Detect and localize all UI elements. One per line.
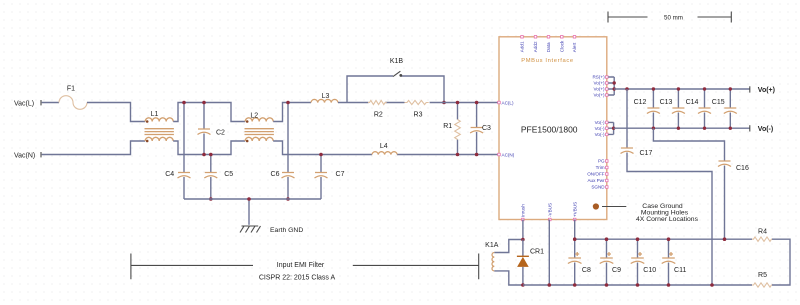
junction dot C6 tap on AC(L) xyxy=(286,101,290,105)
wire Inrush pin drop xyxy=(522,220,524,240)
svg-text:PMBus Interface: PMBus Interface xyxy=(521,58,574,64)
diode CR1 xyxy=(517,248,544,267)
svg-text:Trim: Trim xyxy=(596,165,605,170)
svg-text:L1: L1 xyxy=(151,111,159,118)
svg-text:AC(N): AC(N) xyxy=(502,152,515,157)
svg-text:K1A: K1A xyxy=(485,242,499,249)
op-amp U1 PFE1500/1800 module block xyxy=(499,37,607,220)
svg-text:Vac(N): Vac(N) xyxy=(14,153,35,160)
pin SGND xyxy=(591,185,608,190)
wire fuse to L1 top winding xyxy=(87,103,145,122)
svg-text:C11: C11 xyxy=(674,267,686,274)
wire earth drop xyxy=(248,199,250,225)
pin ON/OFF xyxy=(587,172,608,177)
svg-text:Vo(+): Vo(+) xyxy=(758,87,775,94)
wire Vo(-) output rail xyxy=(614,127,750,129)
wire L1 top to AC(L) rail segment xyxy=(173,103,245,122)
svg-text:C14: C14 xyxy=(686,99,699,106)
capacitor C15 xyxy=(712,99,737,114)
junction dot CR1 bottom xyxy=(521,283,525,287)
pin Inrush xyxy=(521,204,526,221)
pin AC(N) xyxy=(498,152,515,157)
capacitor C2 xyxy=(198,129,226,137)
svg-text:R4: R4 xyxy=(758,228,767,235)
svg-text:R1: R1 xyxy=(443,123,452,130)
junction dots C8-C11 bottom rail xyxy=(573,283,714,287)
capacitor C4 xyxy=(165,171,190,178)
svg-text:C17: C17 xyxy=(640,150,653,157)
svg-text:AC(L): AC(L) xyxy=(502,100,514,105)
junction dots C8-C11 top rail xyxy=(573,237,726,241)
svg-text:Clock: Clock xyxy=(560,40,565,52)
wire R4 right to R5 right xyxy=(772,239,790,285)
pin PG xyxy=(598,159,608,164)
capacitor C8 xyxy=(568,252,591,274)
wire Vac(N) to L1 bottom winding xyxy=(42,141,146,155)
capacitor C7 xyxy=(315,171,345,178)
pin Vo(+) 2 xyxy=(593,87,608,92)
junction dot earth drop xyxy=(247,197,251,201)
svg-text:Vo(-): Vo(-) xyxy=(758,126,773,133)
svg-text:L4: L4 xyxy=(380,143,388,150)
svg-text:+VBUS: +VBUS xyxy=(572,202,577,217)
ground earth symbol xyxy=(240,226,303,234)
svg-text:C7: C7 xyxy=(336,171,345,178)
svg-text:Add2: Add2 xyxy=(533,41,538,52)
capacitor C6 branch wire xyxy=(287,103,289,200)
junction dot R1 bottom xyxy=(456,153,460,157)
pin Add2 xyxy=(533,36,538,53)
node Vac(N) input terminal xyxy=(14,152,41,160)
svg-text:CR1: CR1 xyxy=(530,248,544,255)
wire R3 to AC(L) block input xyxy=(430,102,499,104)
wire L1 bottom to AC(N) rail segment xyxy=(173,141,245,155)
wire Vac(L) to fuse F1 xyxy=(42,102,59,104)
svg-text:L2: L2 xyxy=(250,113,258,120)
junction dot C6 on ground rail xyxy=(286,197,290,201)
capacitor C10 xyxy=(631,252,657,274)
svg-text:K1B: K1B xyxy=(390,58,404,65)
pin +VBUS xyxy=(572,202,577,221)
svg-text:Vac(L): Vac(L) xyxy=(14,101,34,108)
wire Vo(+) output rail xyxy=(614,88,750,90)
capacitor C17 xyxy=(621,148,653,157)
wire K1A coil bottom to -VBUS rail xyxy=(494,271,523,285)
svg-text:C8: C8 xyxy=(582,267,591,274)
pin Vo(-) 1 xyxy=(595,120,608,125)
capacitor C14 xyxy=(686,99,711,114)
svg-text:Vo(+): Vo(+) xyxy=(593,93,605,98)
svg-text:4X Corner Locations: 4X Corner Locations xyxy=(636,216,699,223)
pin Clock xyxy=(560,36,565,53)
pin -VBUS xyxy=(548,203,553,221)
svg-text:PFE1500/1800: PFE1500/1800 xyxy=(521,125,578,135)
pin AC(L) xyxy=(498,100,514,105)
svg-text:C2: C2 xyxy=(216,130,225,137)
wire K1B bypass branch xyxy=(347,76,444,103)
capacitor C12 xyxy=(634,99,660,114)
svg-text:Alert: Alert xyxy=(572,42,577,52)
junction dot C5 on ground rail xyxy=(209,197,213,201)
junction dot C3 bottom xyxy=(475,153,479,157)
pin RS(+) xyxy=(592,75,608,80)
svg-text:Vo(-): Vo(-) xyxy=(595,120,605,125)
capacitor C5 xyxy=(204,171,233,178)
pin Trim xyxy=(596,165,608,170)
junction dot Vo(+) bracket lower xyxy=(613,87,616,90)
wire L3 to R2 xyxy=(338,102,405,104)
resistor R5 xyxy=(752,272,772,287)
svg-text:Input EMI Filter: Input EMI Filter xyxy=(277,262,325,269)
junction dot R1 top xyxy=(456,101,460,105)
pin Vo(-) 3 xyxy=(595,132,608,137)
pin Vo(+) 1 xyxy=(593,81,608,86)
capacitor C3 branch wire xyxy=(476,103,478,155)
svg-text:Earth GND: Earth GND xyxy=(270,227,303,234)
svg-text:C3: C3 xyxy=(482,125,491,132)
svg-text:50 mm: 50 mm xyxy=(664,14,683,21)
junction dot C3 top xyxy=(475,101,479,105)
wire -VBUS bottom rail xyxy=(523,284,752,286)
resistor R3 xyxy=(405,100,429,118)
svg-text:ON/OFF: ON/OFF xyxy=(587,172,605,177)
svg-text:Inrush: Inrush xyxy=(521,204,526,217)
capacitor C8 branch wire xyxy=(574,239,576,285)
capacitor C14 branch wire xyxy=(704,89,706,128)
node Vo(-) output terminal xyxy=(750,125,773,133)
capacitor C16 branch wire xyxy=(653,128,724,239)
svg-text:R5: R5 xyxy=(758,272,767,279)
wire L2 top to L3 xyxy=(273,103,311,122)
svg-text:Vo(-): Vo(-) xyxy=(595,132,605,137)
node 50 mm dimension xyxy=(608,12,731,23)
resistor R1 branch wire xyxy=(457,103,459,155)
capacitor C17 branch wire xyxy=(627,89,712,285)
inductor L2 common-mode choke xyxy=(245,113,274,143)
wire Vo(+) pin stubs and bracket xyxy=(608,77,614,95)
capacitor C13 xyxy=(660,99,685,114)
capacitor C4 branch wire xyxy=(183,103,185,200)
svg-text:Add1: Add1 xyxy=(520,41,525,52)
junction dot -VBUS on bottom rail xyxy=(548,283,552,287)
capacitor C2 branch wire xyxy=(203,103,205,155)
svg-text:C10: C10 xyxy=(643,267,656,274)
wire -VBUS pin drop xyxy=(548,220,550,286)
wire Inrush node to K1A coil xyxy=(494,240,523,253)
capacitor C15 branch wire xyxy=(729,89,731,128)
switch K1B relay contact xyxy=(390,58,404,77)
capacitor C13 branch wire xyxy=(677,89,679,128)
capacitor C12 branch wire xyxy=(652,89,654,128)
junction dot C5 tap on AC(N) xyxy=(209,153,213,157)
junction dot C4 tap on AC(L) xyxy=(182,101,186,105)
wire leader to case ground note xyxy=(602,206,626,208)
capacitor C7 branch wire xyxy=(320,155,322,200)
svg-text:C4: C4 xyxy=(165,171,174,178)
svg-text:CISPR 22: 2015 Class A: CISPR 22: 2015 Class A xyxy=(259,275,336,282)
capacitor C3 xyxy=(470,125,491,133)
relay coil K1A xyxy=(485,242,499,271)
wire L4 to AC(N) block input xyxy=(397,154,499,156)
svg-text:F1: F1 xyxy=(67,86,75,93)
pin Alert xyxy=(572,36,577,53)
svg-text:SGND: SGND xyxy=(591,185,605,190)
svg-text:R2: R2 xyxy=(374,112,383,119)
svg-text:L3: L3 xyxy=(322,93,330,100)
svg-text:PG: PG xyxy=(598,159,605,164)
svg-text:RS(+): RS(+) xyxy=(592,75,605,80)
pin Vo(+) 3 xyxy=(593,93,608,98)
resistor R4 xyxy=(752,228,772,241)
junction dot Inrush node xyxy=(521,238,525,242)
svg-text:R3: R3 xyxy=(414,112,423,119)
junction dot K1B right xyxy=(442,101,446,105)
inductor L4 xyxy=(372,143,397,155)
junction dot C2 bottom xyxy=(202,153,206,157)
wire ground rail xyxy=(184,198,321,200)
svg-text:C16: C16 xyxy=(736,165,749,172)
resistor R1 xyxy=(443,120,460,140)
pin Add1 xyxy=(520,36,525,53)
junction dots C12-C15 top rail xyxy=(625,87,732,90)
svg-text:C6: C6 xyxy=(271,171,280,178)
wire L2 bottom to L4 xyxy=(273,141,372,155)
node case ground mounting hole xyxy=(593,203,599,209)
capacitor C10 branch wire xyxy=(637,239,639,285)
junction dots C12-C15 bottom rail xyxy=(652,127,732,130)
pin Aux Pwr xyxy=(587,178,608,183)
junction dot Vo(-) bracket xyxy=(612,127,615,130)
capacitor C9 branch wire xyxy=(606,239,608,285)
svg-text:Vo(+): Vo(+) xyxy=(593,87,605,92)
capacitor C16 xyxy=(718,161,749,172)
node Vac(L) input terminal xyxy=(14,100,41,108)
inductor L3 xyxy=(311,93,338,103)
capacitor C5 branch wire xyxy=(210,155,212,200)
svg-text:C13: C13 xyxy=(660,99,673,106)
node Input EMI Filter dimension xyxy=(131,254,479,282)
capacitor C11 xyxy=(662,252,687,274)
resistor R2 xyxy=(368,100,387,118)
pin Data xyxy=(546,36,551,53)
wire +VBUS pin drop xyxy=(574,220,576,240)
svg-text:-VBUS: -VBUS xyxy=(548,203,553,217)
node Vo(+) output terminal xyxy=(750,86,775,94)
wire +VBUS rail xyxy=(575,238,752,240)
svg-text:Aux Pwr: Aux Pwr xyxy=(587,178,605,183)
junction dot C7 tap on AC(N) xyxy=(319,153,323,157)
capacitor C9 xyxy=(600,252,621,274)
svg-text:Vo(+): Vo(+) xyxy=(593,81,605,86)
capacitor C6 xyxy=(271,171,295,178)
junction dot C2 top xyxy=(202,101,206,105)
fuse F1 xyxy=(59,86,87,110)
inductor L1 common-mode choke xyxy=(145,111,174,142)
svg-text:C5: C5 xyxy=(224,171,233,178)
svg-text:Vo(-): Vo(-) xyxy=(595,126,605,131)
pin Vo(-) 2 xyxy=(595,126,608,131)
svg-text:Data: Data xyxy=(546,42,551,52)
svg-text:C12: C12 xyxy=(634,99,647,106)
wire Vo(-) pin stubs and bracket xyxy=(608,122,613,134)
junction dot Vo(+) bracket upper xyxy=(613,81,616,84)
wire CR1 leads xyxy=(522,240,524,286)
node case ground note text xyxy=(636,203,699,223)
svg-text:C15: C15 xyxy=(712,99,725,106)
svg-text:C9: C9 xyxy=(612,267,621,274)
capacitor C11 branch wire xyxy=(668,239,670,285)
